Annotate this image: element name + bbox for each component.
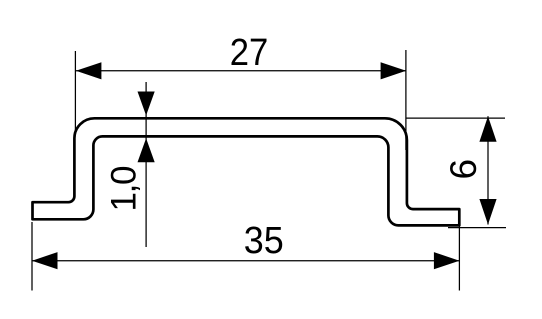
dimension 27: left arrow	[76, 62, 102, 79]
svg-text:6: 6	[443, 159, 484, 180]
dimension 6: bottom arrow	[479, 199, 496, 225]
dimension 6: extension line top	[406, 117, 505, 119]
dimension 27: extension line left	[74, 51, 76, 131]
svg-text:1,0: 1,0	[105, 166, 144, 212]
dimension 27: extension line right	[405, 50, 407, 150]
svg-text:35: 35	[244, 220, 284, 262]
dimension 35: extension line left	[31, 222, 33, 291]
dimension 6: extension line bottom	[448, 227, 506, 229]
dimension 1,0: upper arrow (pointing down)	[138, 92, 155, 116]
svg-text:27: 27	[230, 32, 268, 74]
dimension 35: dimension line	[32, 260, 459, 262]
DIN rail hat profile outline	[33, 118, 460, 225]
dimension 6: top arrow	[479, 116, 496, 142]
dimension 35: right arrow	[434, 252, 460, 269]
dimension 35: left arrow	[32, 252, 58, 269]
dimension 1,0: lower arrow (pointing up)	[138, 138, 155, 162]
dimension 27: dimension line	[76, 70, 406, 72]
dimension 6: dimension line	[487, 116, 489, 224]
dimension 35: extension line right	[458, 226, 460, 291]
dimension 1,0: leader line	[145, 82, 147, 247]
dimension 27: right arrow	[381, 62, 407, 79]
